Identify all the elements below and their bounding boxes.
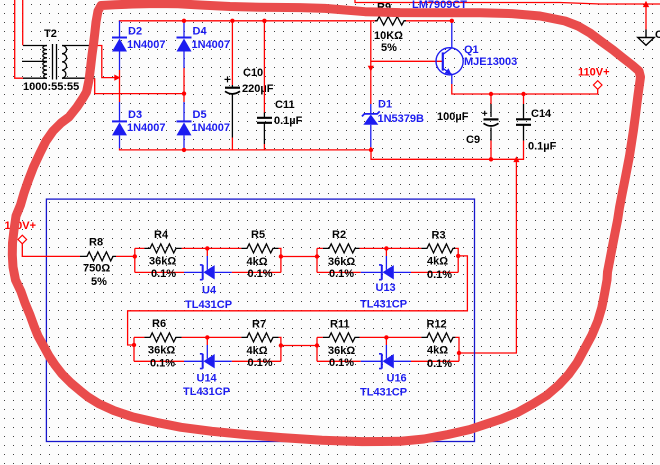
wire: row1 resistor line segments bbox=[135, 248, 458, 272]
label D1 / 1N5379B bbox=[378, 99, 425, 126]
label R5 / 4k / 0.1% bbox=[247, 229, 273, 280]
svg-text:1N4007: 1N4007 bbox=[127, 39, 166, 51]
svg-text:1000:55:55: 1000:55:55 bbox=[23, 81, 79, 93]
resistor R12 4k bbox=[421, 333, 455, 342]
resistor R8 750 Ohm bbox=[80, 252, 116, 261]
wire: row2 resistor line segments bbox=[134, 337, 459, 361]
ground symbol bbox=[638, 30, 654, 46]
label R12 / 4k / 0.1% bbox=[427, 319, 453, 371]
label U13 / TL431CP bbox=[360, 282, 407, 311]
shunt regulator U4 TL431CP bbox=[184, 248, 232, 279]
junction arrow on base branch bbox=[368, 66, 374, 72]
label R7 / 4k / 0.1% bbox=[247, 319, 273, 370]
svg-text:36kΩ: 36kΩ bbox=[148, 345, 175, 357]
resistor R7 4k bbox=[241, 333, 278, 342]
svg-text:4kΩ: 4kΩ bbox=[427, 256, 448, 268]
wire: D4/D5 midpoint segment bbox=[183, 68, 185, 102]
label U16 / TL431CP bbox=[360, 373, 407, 399]
svg-text:R2: R2 bbox=[332, 229, 346, 241]
svg-text:1N5379B: 1N5379B bbox=[378, 113, 425, 125]
svg-text:1N4007: 1N4007 bbox=[192, 122, 231, 134]
svg-text:U14: U14 bbox=[197, 373, 218, 385]
junctions: top rail and bridge bbox=[182, 19, 526, 162]
svg-text:1N4007: 1N4007 bbox=[127, 122, 166, 134]
zener diode D1 1N5379B bbox=[362, 104, 380, 150]
wire: row2 cathode lines bbox=[134, 360, 459, 362]
svg-text:750Ω: 750Ω bbox=[83, 263, 110, 275]
blue enclosure box bbox=[46, 199, 474, 441]
label R3 / 4k / 0.1% bbox=[427, 230, 452, 282]
svg-text:4kΩ: 4kΩ bbox=[247, 256, 268, 268]
label U4 / TL431CP bbox=[185, 285, 232, 312]
label D5 / 1N4007 bbox=[192, 109, 231, 134]
shunt regulator U16 TL431CP bbox=[361, 337, 411, 368]
label U14 / TL431CP bbox=[183, 373, 230, 399]
wire: D2/D3 midpoint segment bbox=[119, 70, 121, 102]
wire: AC node 2 (secondary bottom to D4/D5 midpoint) bbox=[95, 78, 184, 93]
shunt regulator U13 TL431CP bbox=[361, 248, 411, 279]
net connector 110V+ (top) bbox=[593, 81, 602, 90]
resistor R6 36k bbox=[144, 333, 181, 342]
resistor R11 36k bbox=[323, 333, 360, 342]
svg-text:1N4007: 1N4007 bbox=[192, 39, 231, 51]
resistor R9 10K (in top rail) bbox=[375, 17, 406, 26]
wire: row1 link R5 to R2 bbox=[281, 248, 317, 272]
svg-text:36kΩ: 36kΩ bbox=[328, 345, 355, 357]
svg-text:110V+: 110V+ bbox=[5, 220, 37, 232]
svg-text:5%: 5% bbox=[91, 276, 107, 288]
capacitor C10 220uF (polarized) bbox=[225, 21, 241, 150]
wire: bridge + top rail bbox=[120, 21, 451, 22]
junction arrow AC node 1 bbox=[114, 75, 120, 81]
svg-text:R11: R11 bbox=[330, 319, 350, 331]
junctions row2 bbox=[132, 335, 461, 355]
wire: 110V+ to R8 bbox=[22, 244, 80, 257]
svg-text:0.1µF: 0.1µF bbox=[274, 115, 303, 127]
label R8 / 750 / 5% bbox=[83, 237, 110, 289]
svg-text:R4: R4 bbox=[154, 229, 169, 241]
wire: row2 input riser bbox=[133, 337, 135, 361]
svg-text:D3: D3 bbox=[128, 109, 142, 121]
junction arrow on return rail bbox=[513, 156, 519, 162]
capacitor C9 100uF (polarized) bbox=[482, 94, 498, 159]
svg-text:D2: D2 bbox=[128, 26, 142, 38]
resistor R5 4k bbox=[241, 244, 278, 253]
svg-text:R12: R12 bbox=[427, 319, 447, 331]
transistor Q1 MJE13003 bbox=[436, 21, 463, 84]
svg-text:R3: R3 bbox=[432, 230, 446, 242]
wire: base horizontal to Q1 bbox=[371, 60, 443, 62]
svg-text:0.1%: 0.1% bbox=[427, 269, 452, 281]
wire: secondary top lead (red, from top edge) bbox=[22, 0, 24, 45]
svg-text:D1: D1 bbox=[378, 99, 392, 111]
label C10 / 220uF bbox=[242, 67, 274, 95]
svg-text:R5: R5 bbox=[251, 229, 265, 241]
svg-text:0.1%: 0.1% bbox=[329, 268, 354, 280]
svg-text:0.1µF: 0.1µF bbox=[528, 141, 557, 153]
svg-text:220µF: 220µF bbox=[242, 83, 274, 95]
wire: row1 input riser bbox=[134, 248, 136, 272]
diode D5 1N4007 bbox=[177, 102, 192, 148]
svg-text:C9: C9 bbox=[466, 134, 480, 146]
wire: output net (emitter to 110V+) bbox=[452, 84, 598, 94]
wire: R8 to row1 input bbox=[116, 255, 135, 257]
svg-text:0.1%: 0.1% bbox=[151, 268, 176, 280]
wire: base feed branch (from rail down) bbox=[370, 21, 372, 104]
svg-text:TL431CP: TL431CP bbox=[360, 299, 407, 311]
svg-text:5%: 5% bbox=[381, 42, 397, 54]
junctions row1 bbox=[133, 246, 461, 259]
label R6 / 36k / 0.1% bbox=[148, 318, 175, 370]
resistor R4 36k bbox=[144, 244, 181, 253]
label 100uF / C9 bbox=[437, 111, 480, 146]
svg-text:36kΩ: 36kΩ bbox=[328, 256, 355, 268]
wire: bridge - bottom rail bbox=[120, 148, 372, 150]
svg-text:T2: T2 bbox=[44, 28, 57, 40]
svg-text:0.1%: 0.1% bbox=[248, 268, 273, 280]
label D2 / 1N4007 bbox=[127, 26, 166, 52]
label C14 / 0.1uF bbox=[528, 108, 557, 153]
svg-text:0.1%: 0.1% bbox=[150, 358, 175, 370]
svg-text:U4: U4 bbox=[202, 285, 217, 297]
svg-text:0.1%: 0.1% bbox=[248, 357, 273, 369]
svg-text:TL431CP: TL431CP bbox=[183, 386, 230, 398]
label C11 / 0.1uF bbox=[274, 99, 303, 127]
svg-text:100µF: 100µF bbox=[437, 111, 469, 123]
wire: row2 link R7 to R11 bbox=[281, 337, 317, 361]
diode D3 1N4007 bbox=[112, 102, 127, 148]
svg-text:R6: R6 bbox=[152, 318, 166, 330]
svg-text:0.1%: 0.1% bbox=[427, 358, 452, 370]
svg-text:0.1%: 0.1% bbox=[329, 357, 354, 369]
label 10KOhm / 5% bbox=[374, 30, 403, 54]
wire: lower return rail (D1 anode to C14 bottom) bbox=[371, 141, 524, 160]
svg-text:MJE13003: MJE13003 bbox=[464, 56, 517, 68]
label D3 / 1N4007 bbox=[127, 109, 166, 134]
label D4 / 1N4007 bbox=[192, 26, 231, 52]
svg-text:TL431CP: TL431CP bbox=[185, 299, 232, 311]
svg-text:C: C bbox=[655, 29, 660, 41]
diode D4 1N4007 bbox=[177, 21, 192, 68]
capacitor C11 0.1uF bbox=[257, 21, 272, 150]
svg-text:D5: D5 bbox=[193, 109, 207, 121]
resistor R2 36k bbox=[323, 244, 360, 253]
wire: secondary bottom lead (red, from top edge) bbox=[15, 0, 24, 78]
wire: ground drop bbox=[645, 4, 647, 30]
transformer T2 bbox=[22, 44, 97, 80]
wire: AC node 1 (secondary top to D2/D3 midpoint) bbox=[97, 46, 118, 78]
wire: feedback drop from return rail to R12 bbox=[459, 159, 516, 353]
svg-text:R8: R8 bbox=[89, 237, 103, 249]
wire: top cut-off net from x=355 to right edge bbox=[355, 0, 660, 4]
svg-text:Q1: Q1 bbox=[464, 44, 479, 56]
label R2 / 36k / 0.1% bbox=[328, 229, 355, 280]
wire: row1 feedback to row2 bbox=[128, 256, 468, 345]
svg-text:D4: D4 bbox=[193, 26, 208, 38]
svg-text:C10: C10 bbox=[243, 67, 263, 79]
svg-text:TL431CP: TL431CP bbox=[360, 387, 407, 399]
diode D2 1N4007 bbox=[112, 21, 127, 70]
svg-text:10KΩ: 10KΩ bbox=[374, 30, 403, 42]
svg-text:110V+: 110V+ bbox=[578, 66, 610, 78]
label R4 / 36k / 0.1% bbox=[149, 229, 176, 280]
svg-text:4kΩ: 4kΩ bbox=[427, 345, 448, 357]
svg-text:R7: R7 bbox=[252, 319, 266, 331]
svg-text:4kΩ: 4kΩ bbox=[247, 345, 268, 357]
svg-text:U16: U16 bbox=[387, 373, 407, 385]
junction arrow on top net at ground drop bbox=[643, 1, 649, 7]
shunt regulator U14 TL431CP bbox=[184, 337, 232, 368]
svg-text:36kΩ: 36kΩ bbox=[149, 256, 176, 268]
capacitor C14 0.1uF bbox=[516, 94, 531, 141]
net connector 110V+ (bottom left) bbox=[18, 235, 27, 244]
svg-text:C11: C11 bbox=[275, 99, 295, 111]
wire: row1 cathode lines bbox=[135, 271, 458, 273]
svg-text:C14: C14 bbox=[531, 108, 552, 120]
label R11 / 36k / 0.1% bbox=[328, 319, 355, 370]
label Q1 / MJE13003 bbox=[464, 44, 517, 68]
svg-text:U13: U13 bbox=[376, 282, 396, 294]
resistor R3 4k bbox=[421, 244, 455, 253]
